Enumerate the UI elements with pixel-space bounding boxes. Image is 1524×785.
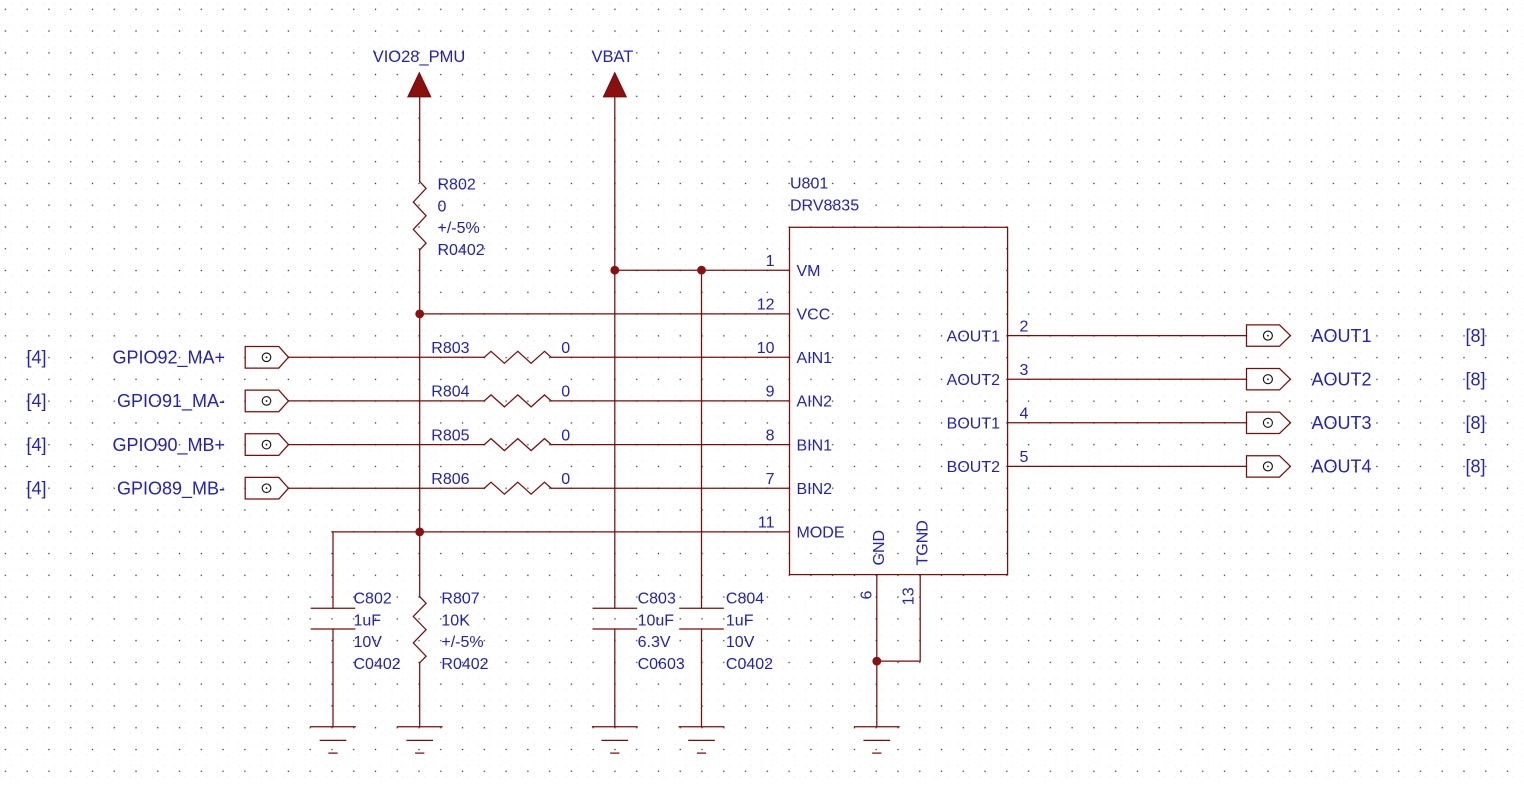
svg-text:10V: 10V [354, 634, 383, 651]
svg-text:0: 0 [561, 384, 570, 401]
svg-text:AIN2: AIN2 [797, 394, 833, 411]
wire AIN2 row left [289, 400, 485, 402]
ground under C803 [593, 726, 638, 728]
wire VM row [615, 269, 790, 271]
svg-text:TGND: TGND [914, 520, 931, 565]
svg-text:4: 4 [1020, 406, 1029, 423]
svg-text:10: 10 [757, 340, 775, 357]
svg-text:[8]: [8] [1466, 413, 1486, 433]
svg-text:[8]: [8] [1466, 326, 1486, 346]
resistor R804 [484, 395, 551, 407]
svg-text:[8]: [8] [1466, 457, 1486, 477]
port GPIO91_MA- [245, 390, 288, 412]
svg-text:AOUT1: AOUT1 [1312, 326, 1372, 346]
svg-text:1uF: 1uF [726, 612, 754, 629]
svg-text:VCC: VCC [797, 307, 831, 324]
svg-text:10V: 10V [726, 634, 755, 651]
wire BIN1 row left [289, 444, 485, 446]
svg-text:7: 7 [766, 471, 775, 488]
resistor R803 [484, 351, 551, 363]
svg-text:C802: C802 [354, 591, 392, 608]
svg-text:R0402: R0402 [438, 242, 485, 259]
svg-text:C804: C804 [726, 591, 764, 608]
svg-text:BOUT2: BOUT2 [947, 459, 1000, 476]
svg-text:BIN1: BIN1 [797, 437, 833, 454]
wire C802 to ground [332, 629, 334, 727]
svg-text:C803: C803 [638, 591, 676, 608]
port AOUT4 [1247, 456, 1291, 477]
wire MODE node to R807 [419, 532, 421, 597]
capacitor C803 [593, 607, 636, 609]
wire VIO28_PMU to R802 [419, 97, 421, 182]
svg-text:0: 0 [438, 199, 447, 216]
wire MODE row [333, 531, 790, 533]
wire AIN2 row right [551, 400, 789, 402]
svg-text:3: 3 [1020, 362, 1029, 379]
svg-text:BIN2: BIN2 [797, 481, 833, 498]
wire GND pin down [876, 575, 878, 727]
svg-text:AOUT1: AOUT1 [947, 328, 1000, 345]
wire VCC row [420, 313, 790, 315]
svg-text:11: 11 [758, 515, 775, 532]
svg-text:GPIO92_MA+: GPIO92_MA+ [112, 348, 225, 369]
wire VBAT rail down to C803 [614, 97, 616, 609]
svg-text:VM: VM [797, 263, 821, 280]
junction VCC-R802 [415, 310, 424, 319]
wire R807 to ground [419, 663, 421, 727]
svg-text:DRV8835: DRV8835 [790, 197, 859, 214]
resistor R807 [413, 597, 426, 663]
wire BIN2 row left [289, 487, 485, 489]
svg-text:MODE: MODE [797, 525, 845, 542]
svg-text:[8]: [8] [1466, 370, 1486, 390]
svg-text:0: 0 [561, 340, 570, 357]
capacitor C804 [680, 607, 723, 609]
junction GND-TGND [872, 657, 881, 666]
svg-text:6: 6 [859, 591, 876, 600]
resistor R802 [413, 182, 426, 251]
power symbol VIO28_PMU [408, 73, 431, 97]
wire AIN1 row right [551, 356, 789, 358]
resistor R806 [484, 482, 551, 494]
port GPIO92_MA+ [245, 347, 288, 369]
port GPIO90_MB+ [245, 434, 288, 456]
svg-text:[4]: [4] [27, 479, 47, 499]
resistor R805 [484, 439, 551, 451]
wire BOUT2 row [1008, 465, 1247, 467]
svg-text:9: 9 [766, 384, 775, 401]
ground under C804 [679, 726, 724, 728]
svg-text:AOUT2: AOUT2 [947, 372, 1000, 389]
svg-text:1uF: 1uF [354, 612, 382, 629]
svg-text:0: 0 [561, 471, 570, 488]
svg-text:VBAT: VBAT [592, 48, 634, 66]
svg-text:5: 5 [1020, 449, 1029, 466]
svg-text:C0603: C0603 [638, 656, 685, 673]
junction VM-C804 rail [697, 266, 706, 275]
svg-text:C0402: C0402 [726, 656, 773, 673]
wire VCC node to MODE node [419, 314, 421, 532]
svg-text:AOUT3: AOUT3 [1312, 413, 1372, 433]
svg-text:R802: R802 [438, 177, 476, 194]
ground under C802 [311, 726, 356, 728]
svg-text:+/-5%: +/-5% [438, 220, 480, 237]
port GPIO89_MB- [245, 477, 288, 499]
svg-text:GPIO90_MB+: GPIO90_MB+ [112, 435, 225, 456]
svg-text:1: 1 [766, 253, 775, 270]
wire VM node to C804 rail [701, 270, 703, 608]
port AOUT3 [1247, 412, 1291, 433]
svg-text:GPIO91_MA-: GPIO91_MA- [117, 391, 225, 412]
svg-text:GND: GND [871, 530, 888, 566]
ground under GND/TGND [855, 726, 900, 728]
svg-text:BOUT1: BOUT1 [947, 416, 1000, 433]
wire AOUT2 row [1008, 378, 1247, 380]
junction MODE-R807 [415, 528, 424, 537]
power symbol VBAT [604, 73, 627, 97]
svg-text:6.3V: 6.3V [638, 634, 671, 651]
wire C803 to ground [614, 629, 616, 727]
op-amp U801 body [790, 227, 1008, 574]
svg-text:0: 0 [561, 427, 570, 444]
svg-text:AOUT4: AOUT4 [1312, 457, 1372, 477]
wire C804 to ground [701, 629, 703, 727]
capacitor C802 [311, 607, 354, 609]
svg-text:R805: R805 [431, 427, 469, 444]
wire BIN1 row right [551, 444, 789, 446]
svg-text:[4]: [4] [27, 348, 47, 368]
wire MODE corner down to C802 [332, 532, 334, 608]
svg-text:AIN1: AIN1 [797, 350, 833, 367]
port AOUT1 [1247, 325, 1291, 346]
ground under R807 [397, 726, 442, 728]
svg-text:R807: R807 [441, 591, 479, 608]
svg-text:[4]: [4] [27, 391, 47, 411]
wire AIN1 row left [289, 356, 485, 358]
svg-text:+/-5%: +/-5% [441, 634, 483, 651]
wire TGND pin down [877, 575, 920, 662]
svg-text:C0402: C0402 [354, 656, 401, 673]
wire R802 to VCC node [419, 250, 421, 314]
svg-text:R0402: R0402 [441, 656, 488, 673]
port AOUT2 [1247, 369, 1291, 390]
svg-text:12: 12 [757, 297, 775, 314]
svg-text:8: 8 [766, 427, 775, 444]
svg-text:10K: 10K [441, 612, 470, 629]
svg-text:U801: U801 [790, 176, 828, 193]
wire BIN2 row right [551, 487, 789, 489]
svg-text:VIO28_PMU: VIO28_PMU [373, 48, 466, 66]
junction VBAT-VM [610, 266, 619, 275]
svg-text:AOUT2: AOUT2 [1312, 370, 1372, 390]
svg-text:GPIO89_MB-: GPIO89_MB- [117, 479, 225, 500]
wire BOUT1 row [1008, 422, 1247, 424]
svg-text:[4]: [4] [27, 435, 47, 455]
svg-text:2: 2 [1020, 318, 1029, 335]
svg-text:R803: R803 [431, 340, 469, 357]
svg-text:R804: R804 [431, 384, 469, 401]
svg-text:10uF: 10uF [638, 612, 675, 629]
svg-text:R806: R806 [431, 471, 469, 488]
svg-text:13: 13 [900, 587, 917, 605]
wire AOUT1 row [1008, 335, 1247, 337]
